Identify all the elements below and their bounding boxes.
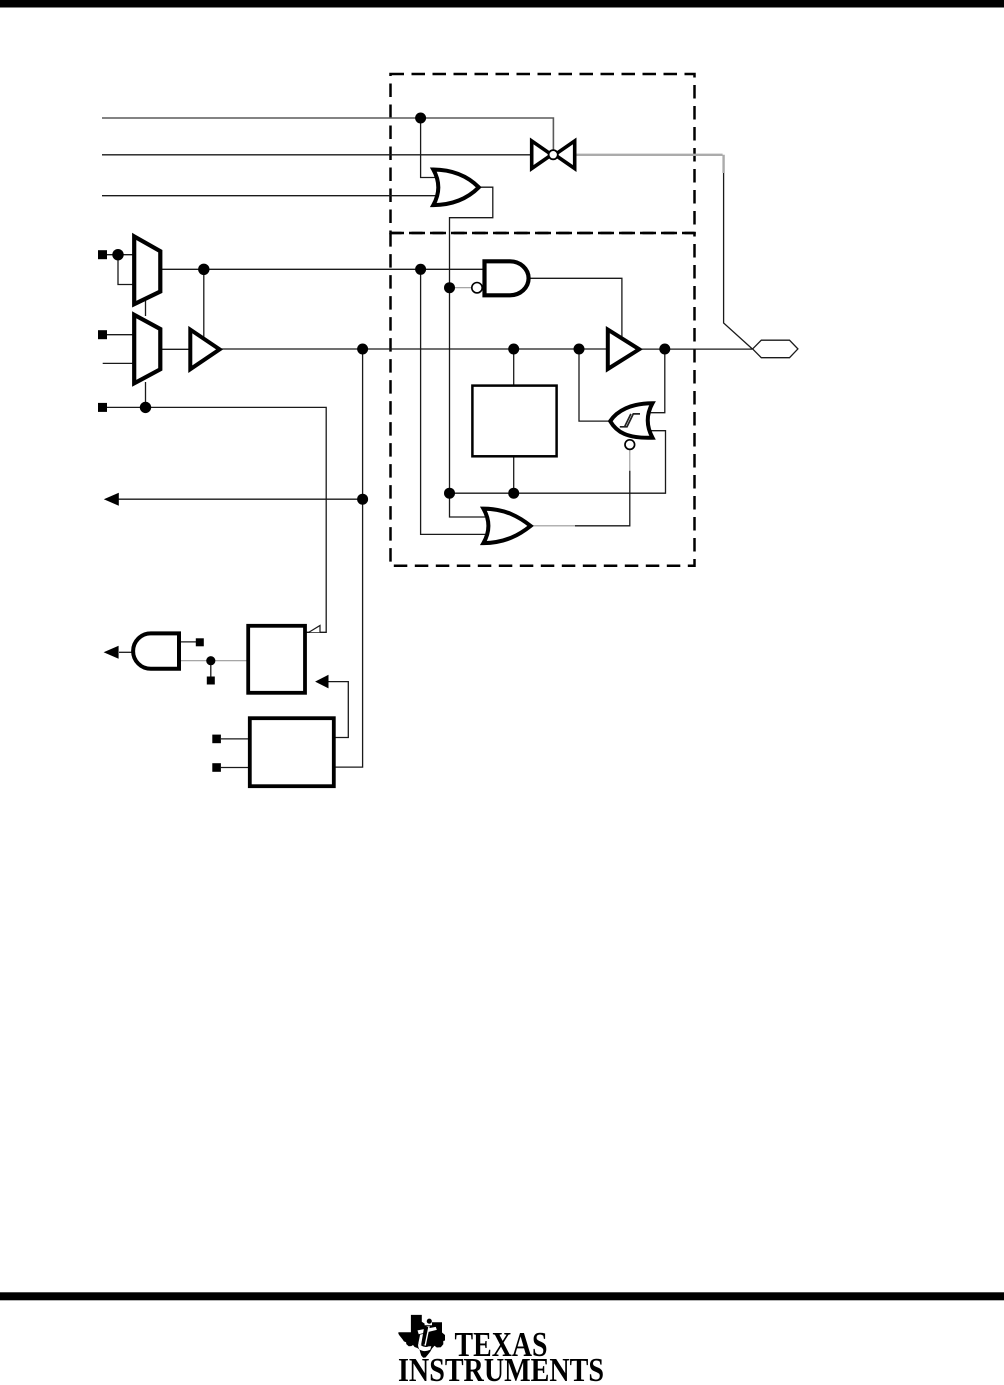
dashed box lower (I/O cell section)	[391, 233, 695, 566]
wire mux select chain	[103, 297, 327, 633]
wire mux2 output to buffer1	[161, 348, 191, 350]
wire box top connection	[513, 349, 515, 386]
wire or-c output stub gray	[531, 525, 575, 527]
wire feedback line y493	[450, 431, 666, 494]
wire branch to lower OR bottom input	[421, 269, 486, 534]
memory/latch box (square)	[472, 386, 556, 457]
mux M1	[134, 236, 160, 304]
wire box2 inputs	[221, 739, 250, 768]
wire input line 1	[102, 118, 553, 151]
arrowheads	[104, 493, 329, 689]
input terminal squares	[98, 250, 221, 772]
white ti carve	[418, 1327, 437, 1334]
NAND-style AND gate G2 with inverted input	[485, 261, 529, 295]
wire schmitt bubble to lower OR output	[629, 449, 631, 470]
wire and gate bottom input to box1	[179, 660, 247, 662]
wire buffer2 output to pad	[641, 348, 752, 350]
dashed box upper (output section)	[391, 74, 695, 233]
wire and gate top input	[179, 641, 196, 643]
wire to lower OR top input	[450, 493, 486, 517]
wire input line 3	[102, 195, 436, 197]
top header bar	[0, 0, 1004, 8]
junction dots	[112, 113, 670, 666]
wire vertical feedback x362	[335, 349, 363, 767]
wire mux1 output to NAND input	[161, 268, 485, 270]
hysteresis symbol	[620, 414, 640, 427]
wire stub mux2 second input	[103, 362, 135, 364]
wire left arrow line	[119, 498, 363, 500]
clock edge triangle on box1	[309, 626, 320, 633]
schmitt bubble	[625, 440, 635, 450]
wire box bottom connection	[513, 456, 515, 493]
register box1	[248, 626, 305, 693]
wire pad sense to schmitt top input	[648, 349, 665, 413]
wire main data line	[221, 348, 608, 350]
TI logo bug	[398, 1315, 445, 1358]
tristate buffer B1	[190, 330, 219, 370]
schmitt trigger gate (left facing)	[610, 403, 652, 438]
wire bowtie output gray segment	[576, 155, 723, 173]
wire line1 branch to OR gate top input	[421, 118, 436, 178]
arrow into box1 right	[315, 675, 328, 689]
wire terminal2 to mux2	[107, 334, 135, 336]
wire terminal1 to mux1 inputs	[107, 255, 135, 285]
wire bowtie output routing	[724, 172, 753, 349]
wire box2 to box1 feedback	[329, 682, 349, 738]
OR gate G3 (lower)	[483, 509, 530, 543]
black i slant	[421, 1327, 428, 1345]
arrow left output y499	[104, 493, 119, 506]
wire input line 2	[102, 154, 531, 156]
OR gate G1 (upper)	[433, 170, 479, 206]
wire NAND output to buffer2 enable	[529, 278, 622, 338]
tristate buffer B2	[608, 330, 639, 369]
wire stub to NAND bubble	[450, 287, 472, 289]
arrow and gate output	[104, 646, 119, 659]
pass gate (bowtie) left triangle	[532, 141, 552, 169]
svg-text:INSTRUMENTS: INSTRUMENTS	[398, 1352, 604, 1385]
wire OR output routing down	[450, 187, 493, 493]
wire tristate enable buffer1	[203, 269, 205, 338]
inverter bubble on G2 input	[472, 283, 482, 293]
wire and gate output	[119, 651, 132, 653]
pass gate center circle	[549, 150, 558, 159]
mux M2	[134, 315, 160, 384]
output pad hexagon	[753, 340, 798, 358]
black i dot	[427, 1319, 432, 1324]
bottom footer bar	[0, 1292, 1004, 1300]
register box2	[250, 718, 334, 786]
AND gate G4 (left facing)	[133, 633, 179, 668]
wire schmitt tip to main line	[579, 349, 609, 421]
pass gate (bowtie) right triangle	[555, 141, 575, 169]
